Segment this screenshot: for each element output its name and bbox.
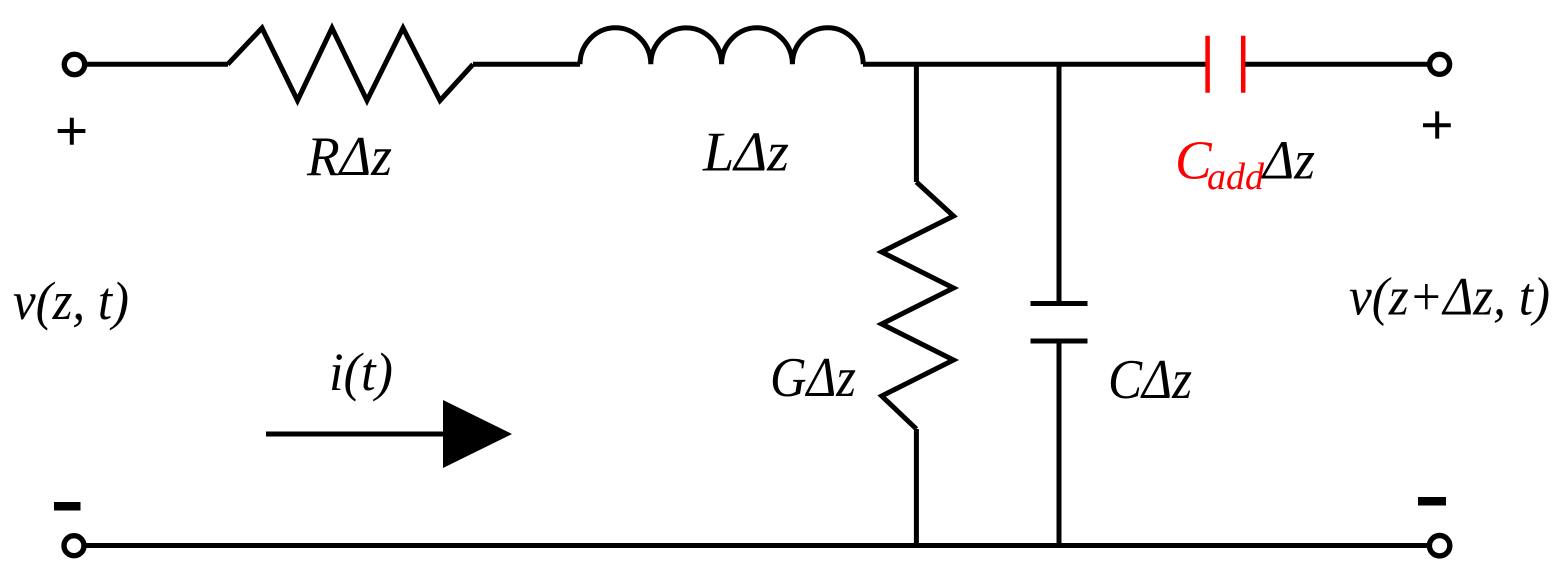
svg-text:GΔz: GΔz	[770, 347, 856, 409]
current arrow i(t)	[266, 432, 446, 437]
svg-text:RΔz: RΔz	[306, 126, 392, 188]
wire Cadd to right terminal	[1245, 62, 1429, 67]
minus sign bottom-right	[1418, 497, 1446, 506]
svg-text:i(t): i(t)	[329, 342, 393, 402]
wire resistor to inductor	[473, 62, 580, 67]
inductor L (LΔz)	[580, 28, 863, 65]
wire C branch top	[1057, 64, 1062, 301]
wire top-left	[86, 62, 228, 67]
terminal T4 bottom-right	[1429, 536, 1449, 556]
minus sign bottom-left	[54, 502, 81, 511]
wire inductor to Cadd	[863, 62, 1209, 67]
svg-text:LΔz: LΔz	[702, 122, 789, 184]
svg-text:CΔz: CΔz	[1108, 349, 1192, 411]
svg-text:Δz: Δz	[1261, 130, 1315, 191]
capacitor Cadd (red) plates	[1205, 36, 1210, 93]
capacitor C (CΔz) plates	[1031, 301, 1088, 306]
wire G branch top	[914, 64, 919, 182]
resistor G (GΔz)	[882, 182, 954, 429]
svg-text:add: add	[1207, 156, 1265, 198]
wire G branch bottom	[914, 429, 919, 546]
bottom wire	[86, 543, 1428, 548]
terminal T3 bottom-left	[64, 536, 84, 556]
plus sign left	[58, 118, 86, 145]
plus sign right	[1423, 111, 1451, 138]
terminal T1 top-left	[64, 54, 84, 74]
resistor R (RΔz)	[228, 28, 473, 101]
svg-text:v(z+Δz, t): v(z+Δz, t)	[1349, 267, 1550, 327]
terminal T2 top-right	[1430, 54, 1450, 74]
svg-text:v(z, t): v(z, t)	[13, 271, 129, 331]
wire C branch bottom	[1057, 343, 1062, 546]
